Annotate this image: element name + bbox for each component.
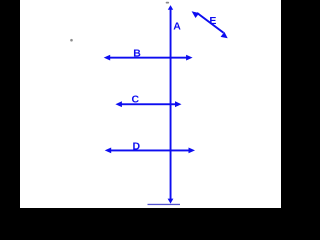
vertical axis line with arrows (scale line): [168, 5, 174, 204]
arrow E (diagonal double arrow): [192, 11, 228, 38]
small grey dot: [70, 39, 73, 42]
svg-text:A: A: [173, 21, 181, 33]
arrow D (horizontal double arrow): [105, 148, 195, 154]
svg-text:B: B: [133, 48, 141, 60]
arrow B (horizontal double arrow): [104, 55, 193, 61]
white page background: [20, 0, 281, 208]
svg-text:C: C: [132, 93, 140, 105]
svg-text:E: E: [209, 15, 216, 27]
faint underline segment at bottom: [148, 204, 181, 205]
svg-text:D: D: [133, 140, 141, 152]
small grey smudge at top: [166, 2, 169, 4]
arrow C (horizontal double arrow): [115, 101, 181, 107]
